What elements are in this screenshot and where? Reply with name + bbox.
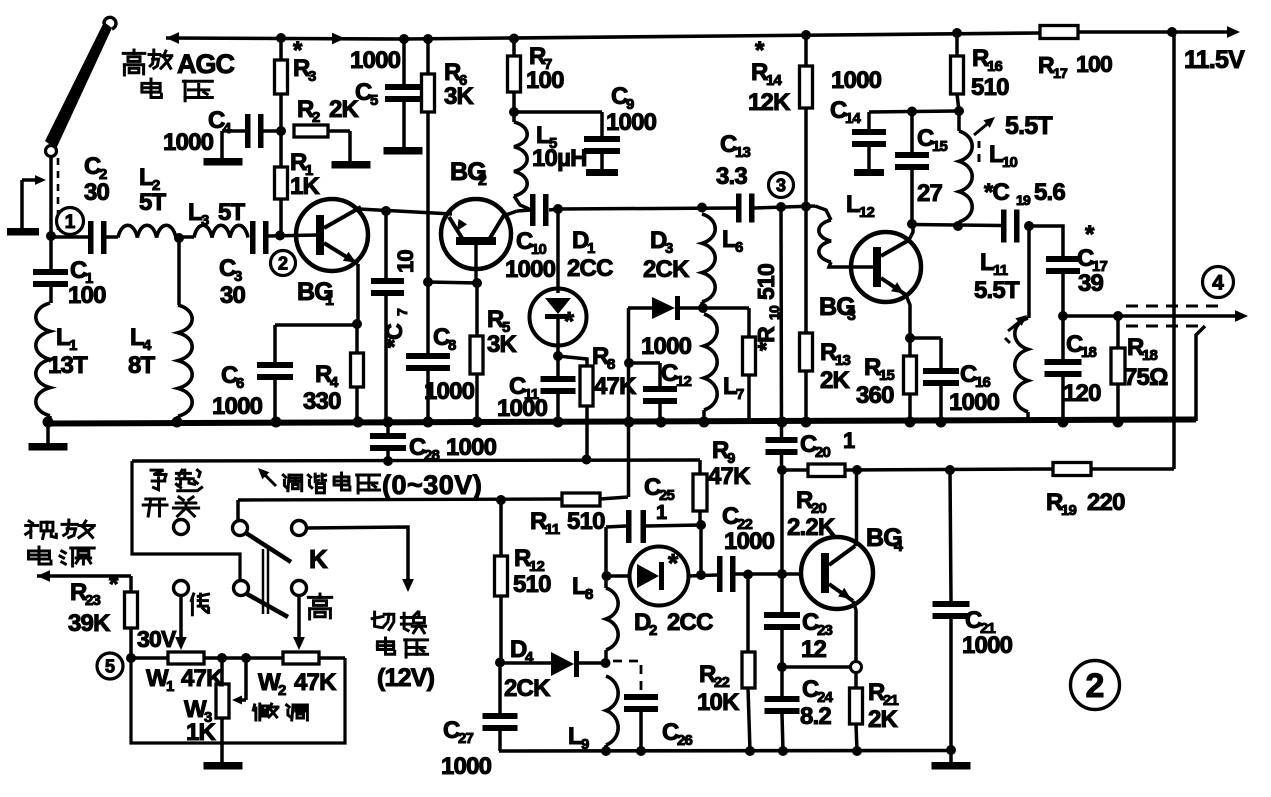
capacitor C23: [764, 612, 800, 618]
svg-text:16: 16: [987, 58, 1003, 75]
resistor R8: [558, 356, 587, 366]
svg-text:4: 4: [1212, 272, 1224, 295]
wire switch feed: [236, 500, 240, 521]
svg-text:17: 17: [1053, 65, 1068, 81]
wire W3 wiper: [244, 658, 248, 700]
inductor L11: [1027, 226, 1031, 318]
svg-text:3: 3: [776, 175, 786, 195]
svg-text:510: 510: [513, 571, 551, 598]
node R13-R14 crossing: [801, 202, 811, 212]
capacitor C8: [406, 353, 450, 359]
node C7 top: [381, 206, 391, 216]
wire to C9: [514, 110, 602, 114]
capacitor C11: [556, 356, 560, 376]
dashed coax bottom: [1126, 325, 1200, 328]
svg-text:L: L: [139, 164, 153, 191]
svg-text:K: K: [309, 544, 328, 574]
node L6-L7-D3: [698, 303, 708, 313]
svg-text:510: 510: [753, 264, 779, 300]
node top rail at R14: [801, 30, 811, 40]
resistor R5: [475, 283, 479, 336]
transistor BG2: [441, 199, 511, 269]
svg-text:2CK: 2CK: [643, 256, 690, 283]
node rail: [553, 417, 564, 428]
svg-text:120: 120: [1063, 380, 1101, 407]
resistor R9: [698, 460, 702, 474]
svg-text:5.5T: 5.5T: [1005, 112, 1052, 140]
node bottom wire: [852, 746, 862, 756]
node C15 top: [907, 107, 917, 117]
svg-text:47K: 47K: [594, 373, 637, 400]
ground W3: [204, 762, 243, 770]
capacitor C2: [88, 221, 94, 254]
svg-text:12: 12: [676, 373, 692, 390]
wire: [845, 469, 1053, 470]
svg-text:330: 330: [303, 388, 341, 415]
node rail: [383, 417, 394, 428]
svg-text:1000: 1000: [441, 753, 492, 780]
node 4: [1203, 267, 1234, 298]
svg-text:2: 2: [278, 253, 288, 273]
svg-text:3.3: 3.3: [716, 163, 747, 190]
svg-text:13T: 13T: [48, 352, 88, 379]
dashed coax top: [1126, 305, 1218, 308]
node BG2 emitter: [472, 278, 482, 288]
diode D1: [556, 209, 560, 293]
node top rail at R16: [952, 28, 962, 38]
svg-text:5: 5: [105, 656, 115, 676]
svg-text:L: L: [846, 191, 860, 218]
svg-text:100: 100: [526, 67, 564, 94]
wire switch line: [238, 499, 562, 500]
ground C5: [384, 147, 423, 155]
switch contact a3: [292, 521, 307, 536]
capacitor C19: [1001, 210, 1007, 243]
resistor R23: [125, 592, 138, 628]
node rail: [656, 417, 667, 428]
wire W2 wiper: [297, 595, 301, 640]
svg-text:(0~30V): (0~30V): [382, 470, 482, 500]
node R7-L5: [509, 107, 519, 117]
node 1: [57, 208, 84, 235]
diode D2: [606, 574, 630, 578]
svg-text:1: 1: [325, 292, 334, 309]
wire: [51, 235, 88, 239]
wire x782 mid: [780, 470, 784, 612]
svg-text:11.5V: 11.5V: [1184, 46, 1245, 74]
wire BG1 emitter row: [352, 319, 362, 329]
node rail: [1058, 417, 1069, 428]
svg-text:6: 6: [735, 239, 743, 256]
node rail: [423, 417, 434, 428]
node rail: [777, 417, 788, 428]
svg-text:75Ω: 75Ω: [1124, 364, 1168, 391]
svg-text:L: L: [722, 226, 736, 253]
svg-text:1: 1: [656, 502, 667, 524]
node rail: [699, 417, 710, 428]
svg-text:1000: 1000: [641, 333, 692, 360]
node rail: [624, 417, 635, 428]
svg-text:47K: 47K: [294, 669, 337, 696]
dashed wire to C26: [613, 661, 641, 694]
resistor R22: [746, 575, 750, 652]
node C4-R1-R2: [276, 126, 286, 136]
capacitor C15: [910, 111, 914, 152]
node C12: [624, 358, 634, 368]
resistor R12: [499, 500, 503, 556]
node rail: [1113, 417, 1124, 428]
wire main line: [558, 208, 736, 209]
svg-text:360: 360: [856, 382, 894, 409]
svg-text:7: 7: [736, 386, 744, 403]
capacitor C22: [717, 556, 723, 592]
label 微调: [253, 705, 254, 710]
resistor R7: [512, 39, 516, 56]
wire BG2 to C10: [503, 211, 517, 216]
svg-text:3: 3: [308, 68, 316, 85]
wire emitter: [428, 282, 477, 283]
ground C21: [949, 751, 953, 762]
svg-text:39: 39: [1078, 270, 1104, 297]
node BG3 emitter: [905, 333, 915, 343]
svg-text:L: L: [572, 573, 586, 600]
label 切换电压12V: [375, 612, 381, 627]
switch lever lower: [247, 594, 288, 617]
svg-text:39K: 39K: [68, 610, 111, 637]
resistor R13: [800, 333, 813, 371]
diode D4: [500, 661, 551, 665]
node rail: [472, 417, 483, 428]
wire to R10: [703, 306, 749, 310]
ground antenna: [7, 228, 39, 236]
svg-text:11: 11: [545, 521, 560, 538]
capacitor C18: [1061, 316, 1065, 359]
svg-text:*C: *C: [984, 179, 1010, 206]
svg-text:3: 3: [847, 307, 856, 324]
antenna: [45, 22, 112, 149]
node R22 top: [743, 570, 753, 580]
svg-text:2K: 2K: [868, 706, 899, 733]
svg-text:18: 18: [1142, 347, 1158, 364]
switch lever upper: [246, 533, 291, 562]
svg-text:30: 30: [84, 179, 110, 206]
label 视放电源: [29, 521, 32, 523]
antenna lead: [49, 156, 53, 235]
wire to C17: [1029, 226, 1063, 256]
svg-text:13: 13: [735, 144, 751, 161]
wire: [782, 468, 808, 472]
svg-text:7: 7: [394, 308, 410, 316]
capacitor C28: [386, 422, 390, 433]
capacitor C20: [780, 435, 784, 439]
svg-text:8: 8: [607, 356, 615, 373]
ground C4: [204, 158, 243, 166]
svg-text:27: 27: [917, 180, 943, 207]
label 高放AGC电压: [133, 50, 136, 53]
capacitor C14: [867, 112, 871, 129]
svg-text:L: L: [989, 141, 1003, 168]
wire 11.5V arrow: [1172, 30, 1228, 34]
transistor BG3: [851, 232, 921, 302]
switch contact b1: [174, 581, 189, 596]
svg-text:5T: 5T: [218, 199, 246, 226]
wire 11.5V rail: [1172, 32, 1176, 469]
resistor R1: [279, 131, 283, 167]
svg-text:3: 3: [201, 212, 209, 229]
inductor L7: [704, 314, 717, 410]
node top rail at R7: [509, 34, 519, 44]
node L10 top: [954, 106, 964, 116]
node rail: [271, 417, 282, 428]
node R8 bottom: [582, 455, 592, 465]
node top rail at R6: [423, 34, 433, 44]
wire ground rail: [48, 420, 1196, 424]
inductor L12: [815, 206, 831, 220]
node L10 bottom: [953, 221, 963, 231]
svg-text:12K: 12K: [748, 89, 791, 116]
svg-text:1000: 1000: [424, 378, 475, 405]
capacitor C6: [257, 362, 293, 368]
svg-text:19: 19: [1061, 502, 1077, 519]
node BG4 base: [777, 569, 787, 579]
node L8-L9-D4: [601, 658, 611, 668]
svg-text:1000: 1000: [505, 256, 556, 283]
svg-text:L: L: [568, 723, 582, 750]
wire W1 wiper: [179, 595, 183, 640]
node 2: [271, 251, 296, 276]
svg-text:6: 6: [236, 375, 244, 392]
svg-text:1000: 1000: [212, 393, 263, 420]
svg-text:23: 23: [85, 592, 101, 609]
inductor L9: [606, 676, 618, 745]
node D2 cathode: [696, 570, 706, 580]
capacitor C24: [780, 667, 784, 696]
resistor R4: [355, 324, 359, 353]
wire: [176, 235, 194, 239]
svg-text:L: L: [980, 249, 994, 276]
resistor R6: [426, 39, 430, 74]
capacitor C5: [402, 39, 406, 84]
adjust arrow L10: [974, 120, 992, 135]
terminal BG4 emitter: [851, 662, 862, 673]
resistor R10: [747, 308, 751, 337]
inductor L6: [702, 214, 715, 302]
label 予选开关: [151, 470, 166, 474]
svg-text:3K: 3K: [444, 83, 475, 110]
node D1 top: [553, 204, 563, 214]
node bottom wire: [636, 746, 646, 756]
wire c14 line: [869, 111, 959, 112]
antenna ground arm: [22, 178, 38, 182]
wire coax shield: [1196, 326, 1205, 421]
svg-text:10K: 10K: [697, 689, 740, 716]
svg-text:L: L: [56, 324, 70, 351]
node rail: [905, 417, 916, 428]
capacitor C1: [49, 237, 53, 269]
svg-text:L: L: [188, 199, 202, 226]
node 5: [97, 653, 123, 679]
capacitor C12: [629, 361, 660, 365]
svg-text:510: 510: [567, 508, 605, 535]
node R9-C25: [696, 520, 706, 530]
node top rail at R3: [276, 33, 286, 43]
inductor L8: [604, 576, 608, 588]
svg-text:2: 2: [312, 109, 320, 126]
svg-text:2CC: 2CC: [667, 609, 713, 636]
node BG4 collector top: [852, 465, 862, 475]
node C20 bottom: [777, 465, 787, 475]
svg-text:5: 5: [370, 92, 378, 109]
svg-text:1000: 1000: [962, 632, 1013, 659]
svg-text:1000: 1000: [497, 395, 548, 422]
node C17-C18: [1058, 311, 1068, 321]
svg-text:10µH: 10µH: [532, 145, 587, 172]
svg-text:8T: 8T: [128, 352, 156, 379]
node antenna-C1: [46, 231, 56, 241]
svg-text:12: 12: [801, 636, 827, 663]
svg-text:5.6: 5.6: [1034, 179, 1065, 206]
capacitor C27: [498, 662, 502, 713]
svg-text:2: 2: [278, 682, 286, 699]
resistor R17: [1040, 26, 1078, 39]
node 3: [769, 173, 794, 198]
node R6-C8: [423, 277, 433, 287]
svg-text:8: 8: [585, 586, 593, 603]
box preset switch: [132, 461, 240, 580]
label 低: [191, 594, 193, 601]
adjust arrow L11: [1008, 318, 1024, 331]
svg-text:510: 510: [971, 74, 1009, 101]
svg-text:20: 20: [815, 444, 831, 461]
svg-text:*: *: [109, 571, 119, 598]
capacitor C10: [530, 194, 536, 226]
wire BG1 collector to BG2: [359, 209, 452, 214]
node rail: [801, 417, 812, 428]
resistor R18: [1116, 316, 1120, 348]
svg-text:5T: 5T: [139, 189, 167, 216]
resistor R15: [908, 338, 912, 356]
wire W line: [131, 656, 345, 660]
svg-text:47K: 47K: [708, 463, 751, 490]
svg-text:10: 10: [1002, 154, 1018, 171]
svg-text:12: 12: [859, 204, 875, 221]
svg-text:*C: *C: [381, 324, 407, 348]
wire tuning line: [132, 460, 700, 461]
diode D3: [628, 306, 652, 310]
resistor R11: [562, 493, 600, 506]
node rail: [353, 417, 364, 428]
svg-text:2: 2: [649, 622, 657, 639]
capacitor C21: [950, 470, 951, 601]
capacitor C16: [910, 336, 941, 340]
node D4 anode: [495, 658, 505, 668]
node top rail at 11.5V: [1167, 27, 1177, 37]
svg-text:2K: 2K: [820, 367, 851, 394]
node rail: [43, 417, 54, 428]
svg-text:4: 4: [894, 538, 903, 555]
label tuning voltage: [283, 475, 285, 477]
svg-text:1: 1: [843, 428, 855, 453]
wire bottom: [499, 749, 951, 753]
svg-text:18: 18: [1081, 344, 1097, 361]
svg-text:5.5T: 5.5T: [974, 277, 1020, 304]
node 3 junction: [776, 202, 786, 212]
switch contact b2: [234, 581, 249, 596]
inductor L3: [194, 225, 248, 237]
resistor R19: [1053, 463, 1091, 476]
wire BG1 base: [269, 235, 318, 236]
svg-text:2: 2: [1086, 667, 1105, 705]
node x782 C22: [777, 569, 787, 579]
svg-text:2: 2: [478, 172, 487, 189]
node C28 bottom: [383, 456, 393, 466]
svg-text:*R: *R: [753, 326, 779, 351]
svg-text:27: 27: [458, 730, 474, 747]
wire D3 anode riser: [627, 308, 631, 497]
svg-text:3K: 3K: [487, 331, 518, 358]
pot W2: [283, 652, 319, 664]
svg-text:1000: 1000: [949, 389, 1000, 416]
svg-text:1K: 1K: [186, 719, 217, 746]
node after C19: [1024, 221, 1034, 231]
capacitor C9: [584, 136, 620, 142]
svg-text:14: 14: [845, 110, 862, 127]
capacitor C25: [604, 527, 608, 575]
node bottom wire: [778, 746, 788, 756]
svg-text:2CK: 2CK: [504, 675, 551, 702]
wire video supply arrow: [37, 570, 50, 582]
label 高: [319, 594, 322, 597]
capacitor C13: [736, 194, 742, 223]
resistor R20: [808, 464, 845, 477]
resistor R16: [955, 33, 959, 56]
svg-text:1K: 1K: [290, 173, 321, 200]
pot W3: [220, 658, 224, 684]
label R10 rotated: [753, 264, 782, 351]
node bottom wire: [946, 745, 956, 755]
svg-text:47K: 47K: [181, 665, 224, 692]
switch contact a1: [174, 520, 189, 535]
svg-text:1: 1: [65, 212, 76, 233]
capacitor C26: [624, 694, 658, 700]
svg-text:1000: 1000: [163, 129, 214, 156]
transistor BG1: [296, 199, 368, 271]
switch contact b3: [292, 581, 307, 596]
svg-text:1000: 1000: [831, 67, 882, 94]
svg-text:L: L: [130, 324, 144, 351]
resistor R2: [294, 125, 328, 137]
svg-text:1000: 1000: [606, 109, 657, 136]
wire AGC line with arrows: [166, 32, 179, 44]
capacitor C7: [384, 211, 388, 278]
node R18 top: [1113, 311, 1123, 321]
wire output line: [1063, 314, 1238, 318]
label page number 2: [1071, 661, 1120, 710]
node top rail at C5: [399, 34, 409, 44]
svg-text:1: 1: [166, 678, 174, 695]
svg-text:30V: 30V: [137, 626, 177, 652]
node D1-C11-R8: [553, 351, 563, 361]
svg-text:(12V): (12V): [377, 664, 435, 692]
node L8 top: [602, 571, 612, 581]
wire top rail: [404, 33, 1040, 39]
svg-text:100: 100: [68, 282, 106, 309]
node W line: [126, 653, 136, 663]
inductor L5: [512, 112, 516, 122]
node bottom wire: [745, 746, 755, 756]
svg-text:2CC: 2CC: [567, 255, 613, 282]
svg-text:3: 3: [665, 240, 673, 257]
